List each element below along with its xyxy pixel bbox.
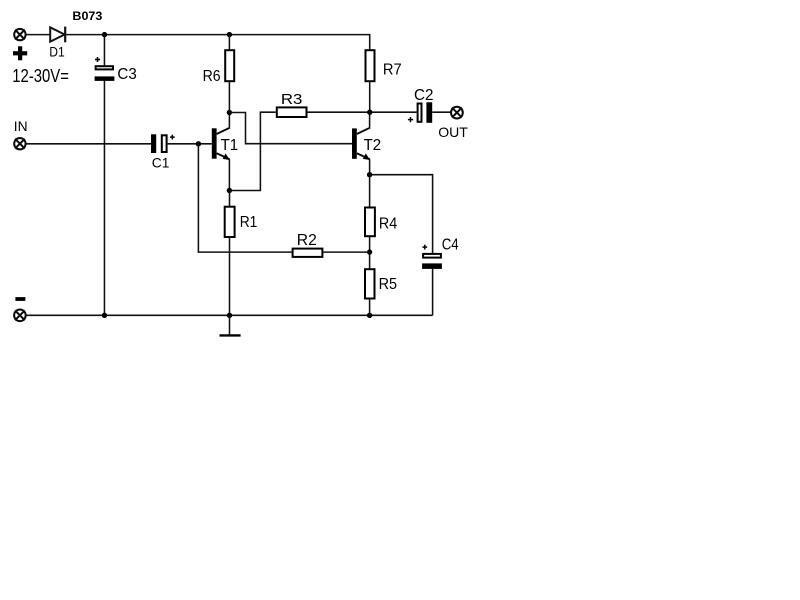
resistor R6 [225,50,234,81]
wire V+ rail down to R7 top [369,35,371,51]
plus mark C2 polarity [408,117,413,122]
wire C1 to T1 base [167,143,212,145]
wire T1 collector junction to T2 base (step) [229,113,352,144]
node junction ground rail at R1 [227,313,232,318]
svg-text:D1: D1 [49,43,65,59]
svg-text:B073: B073 [72,11,102,23]
wire C4 bottom down to ground rail [432,269,434,315]
wire IN terminal to C1 [26,143,151,145]
wire T2 emitter down to emitter junction [369,159,371,175]
transistor T2 [352,128,370,160]
svg-text:R1: R1 [240,214,258,231]
wire T2 emitter junction to C4 top [370,175,433,254]
svg-text:R3: R3 [281,91,303,108]
svg-text:C2: C2 [414,87,433,104]
svg-text:T2: T2 [364,137,382,154]
svg-text:R7: R7 [383,61,402,78]
wire C3 negative plate down left rail to ground rail [103,81,105,315]
wire ground rail [26,314,370,316]
wire V+ junction down to C3 positive plate [103,35,105,66]
capacitor C1 electrolytic coupling [151,134,167,153]
svg-text:R4: R4 [379,216,398,233]
plus mark C4 polarity [422,245,427,250]
terminal minus supply [14,310,26,322]
node junction T2 collector / R7 / R3 / C2 [367,110,372,115]
svg-text:12-30V=: 12-30V= [12,66,69,86]
svg-text:C4: C4 [442,236,459,253]
svg-text:C3: C3 [117,66,136,83]
svg-text:OUT: OUT [438,124,468,140]
wire across to R2 left end [198,251,292,253]
terminal OUT [451,107,463,119]
node junction T2 emitter / R4 / C4 [367,172,372,177]
wire R7 bottom to T2 collector junction [369,81,371,112]
svg-text:R2: R2 [297,232,317,249]
node junction T1 base / R2 feedback [196,141,201,146]
node junction V+ rail at C3 [102,32,107,37]
wire T1 collector up to R6 bottom junction [228,113,230,128]
ground symbol [220,315,241,335]
plus mark C3 polarity [95,57,100,62]
resistor R3 feedback [277,107,307,117]
minus symbol supply polarity [15,297,25,301]
wire V+ rail down to R6 top [228,35,230,51]
svg-text:R5: R5 [379,276,397,293]
svg-text:C1: C1 [152,155,170,171]
node junction V+ rail at R6 [227,32,232,37]
resistor R1 [225,207,235,237]
plus mark C1 polarity [170,135,175,140]
svg-text:R6: R6 [203,68,221,85]
wire C4 to ground rail corner [370,314,433,316]
node junction R4 / R5 / R2 divider [367,249,372,254]
wire D1 cathode to R7 top (V+ rail) [66,34,370,36]
node junction ground rail at left rail [102,313,107,318]
wire C2 to OUT terminal [432,111,451,113]
wire divider junction to R5 top [369,252,371,269]
wire R3 left lead to T1 emitter junction [229,112,275,190]
node junction T1 emitter / R1 / R3 [227,188,232,193]
plus symbol supply polarity [13,46,27,60]
wire plus terminal to diode D1 anode [26,34,50,36]
wire T1 emitter down to emitter junction [228,159,230,190]
resistor R2 feedback [293,249,323,257]
wire T1 base junction down to R2 level [197,144,199,252]
capacitor C2 electrolytic output coupling [418,102,433,123]
resistor R5 [365,269,375,298]
wire T2 collector up to junction [369,112,371,128]
wire T2 emitter junction down to R4 top [369,175,371,208]
wire R4 bottom to divider junction [369,236,371,252]
wire T1 emitter junction down to R1 top [229,191,231,207]
wire R2 right lead to divider junction [323,251,369,253]
wire R6 bottom to T1 collector junction [228,81,230,112]
diode D1 [50,27,65,43]
wire R5 bottom to ground rail [369,299,371,316]
node junction T1 collector / R6 / T2 base link [227,110,232,115]
capacitor C3 electrolytic [95,66,115,81]
wire R3 right lead to T2 collector junction and C2 [308,111,417,113]
wire R1 bottom down to ground rail [229,237,231,315]
terminal IN input [14,138,25,149]
transistor T1 [212,128,230,160]
node junction ground rail at R5 / C4 [367,313,372,318]
capacitor C4 electrolytic bypass [422,254,442,269]
svg-text:T1: T1 [221,137,239,154]
terminal plus supply input [14,29,25,40]
svg-text:IN: IN [14,118,28,134]
resistor R7 [366,50,375,81]
resistor R4 [365,208,375,237]
